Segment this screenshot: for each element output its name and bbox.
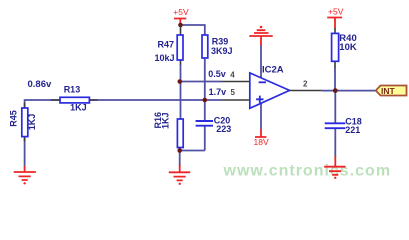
svg-text:223: 223 [216, 124, 231, 134]
svg-text:www.cntronics.com: www.cntronics.com [223, 163, 392, 180]
svg-text:R13: R13 [64, 85, 81, 95]
resistor R13 [51, 85, 98, 113]
wire R40 bottom to output junction [334, 67, 336, 91]
svg-text:IC2A: IC2A [262, 65, 284, 76]
junction +5V node [178, 23, 183, 28]
svg-text:1.7v: 1.7v [209, 87, 227, 97]
label 0.86v [28, 79, 52, 90]
svg-text:10K: 10K [339, 42, 357, 53]
resistor R16 [153, 112, 183, 148]
svg-text:R39: R39 [212, 37, 229, 47]
resistor R47 [155, 25, 184, 65]
ground under R45 [14, 166, 36, 185]
svg-text:0.86v: 0.86v [28, 79, 52, 90]
pin number 5 [231, 88, 236, 97]
power port +5V (left) [173, 7, 189, 24]
wire output to junction and INT [322, 90, 376, 92]
wire R16 bottom to ground and C20 bottom link [180, 148, 205, 166]
wire op-amp V+ supply top [260, 45, 262, 79]
wire R47 column down to R16 [180, 64, 182, 119]
svg-text:221: 221 [345, 125, 360, 135]
svg-text:2: 2 [303, 80, 308, 89]
ground under C18 [324, 156, 345, 179]
label 0.5v [208, 69, 226, 79]
op-amp U IC2A [250, 65, 290, 109]
svg-text:R45: R45 [8, 110, 18, 127]
svg-text:1KJ: 1KJ [161, 112, 171, 129]
pin 2 stub output [290, 90, 322, 92]
wire 0.5v net horizontal from R47 junction to pin 4 [180, 81, 222, 83]
pin number 4 [230, 71, 235, 80]
junction R39 / 1.7v node [203, 98, 208, 103]
resistor R39 [202, 35, 233, 58]
watermark www.cntronics.com [223, 163, 392, 180]
net label INT flag [376, 86, 407, 96]
wire R39 bottom to junction [204, 58, 206, 100]
junction output node [333, 88, 338, 93]
resistor R45 [8, 103, 37, 142]
capacitor C20 [196, 116, 232, 135]
pin number 2 [303, 80, 308, 89]
svg-text:INT: INT [381, 86, 396, 96]
power symbol V+ above op-amp (red up-ground) [249, 26, 272, 46]
svg-text:1KJ: 1KJ [70, 102, 87, 112]
svg-text:R47: R47 [158, 40, 175, 50]
wire 1.7v net horizontal from R45 corner to pin 5 [25, 99, 222, 101]
pin 5 stub [222, 99, 250, 101]
svg-text:10kJ: 10kJ [155, 53, 175, 63]
junction R16 bottom node [177, 148, 182, 153]
wire R45 vertical to ground [24, 99, 26, 167]
power port +5V (right) [327, 6, 343, 28]
wire C20 branch from 1.7v junction [204, 100, 206, 151]
wire op-amp V- supply bottom [260, 104, 262, 130]
svg-text:0.5v: 0.5v [208, 69, 226, 79]
capacitor C18 [325, 117, 362, 136]
power port 18V below op-amp [254, 129, 269, 147]
svg-text:1KJ: 1KJ [27, 114, 37, 131]
resistor R40 [332, 28, 357, 68]
wire junction down to C18 and ground [334, 91, 336, 157]
svg-text:18V: 18V [254, 137, 269, 147]
label 1.7v [209, 87, 227, 97]
ground under R16 [169, 165, 190, 185]
pin 4 stub [222, 81, 250, 83]
wire +5V to R39 top corner [181, 25, 205, 35]
junction R47 / 0.5v node [178, 79, 183, 84]
svg-text:+5V: +5V [173, 7, 189, 17]
svg-text:4: 4 [230, 71, 235, 80]
svg-text:3K9J: 3K9J [211, 46, 233, 56]
svg-text:5: 5 [231, 88, 236, 97]
svg-text:+5V: +5V [328, 6, 344, 16]
